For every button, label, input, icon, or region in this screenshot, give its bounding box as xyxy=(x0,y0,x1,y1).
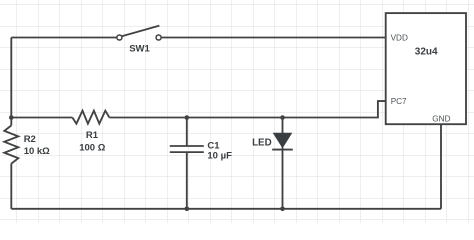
svg-text:VDD: VDD xyxy=(391,33,408,42)
svg-text:32u4: 32u4 xyxy=(415,46,438,57)
svg-text:R2: R2 xyxy=(24,134,36,145)
svg-text:LED: LED xyxy=(252,137,272,148)
svg-text:R1: R1 xyxy=(86,130,99,141)
svg-text:GND: GND xyxy=(432,114,450,123)
svg-text:SW1: SW1 xyxy=(129,43,150,54)
svg-text:100 Ω: 100 Ω xyxy=(79,143,105,154)
svg-text:10 kΩ: 10 kΩ xyxy=(24,146,50,157)
svg-text:PC7: PC7 xyxy=(391,97,407,106)
svg-text:10 µF: 10 µF xyxy=(207,150,232,161)
